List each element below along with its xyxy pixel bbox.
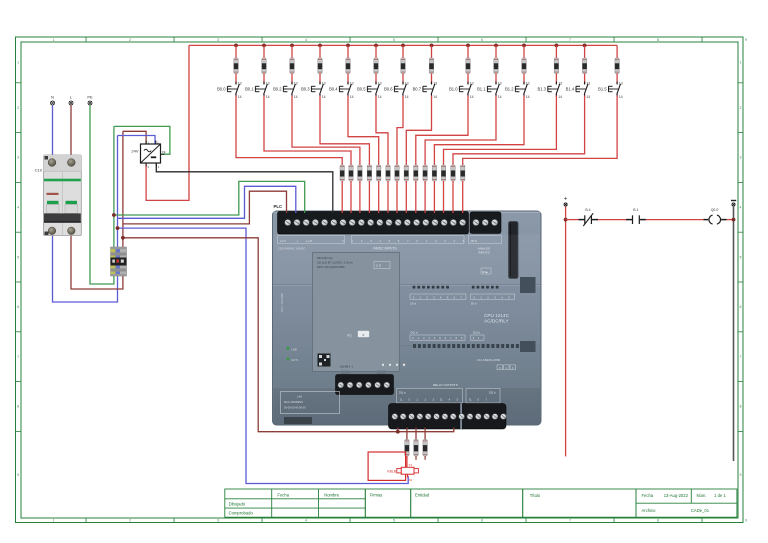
svg-text:KBLB: KBLB xyxy=(387,469,396,473)
NC contact B.4 xyxy=(579,208,599,226)
svg-text:1 de 1: 1 de 1 xyxy=(714,493,726,498)
svg-text:8: 8 xyxy=(657,38,659,42)
relay coil KBLB xyxy=(387,463,418,482)
svg-text:X: X xyxy=(499,366,501,370)
wire B1.5 to input xyxy=(463,96,617,166)
fuse above B0.3 xyxy=(318,58,322,74)
circuit breaker C10 xyxy=(35,155,82,236)
svg-text:PE: PE xyxy=(87,95,93,100)
junction xyxy=(121,236,125,240)
PLC name label xyxy=(274,204,283,209)
wire input to PLC B1.5 xyxy=(462,181,464,213)
svg-text:DI a: DI a xyxy=(411,302,417,306)
fuse output Q0 xyxy=(405,440,409,457)
fuse input B1.2 xyxy=(432,165,436,181)
fuse above B0.0 xyxy=(234,58,238,74)
svg-text:B0.3: B0.3 xyxy=(301,86,310,91)
svg-text:Fecha: Fecha xyxy=(642,493,654,498)
wire input to PLC B1.4 xyxy=(452,181,454,213)
wire fuse to contact B0.4 xyxy=(347,74,349,85)
wire B0.4 to input xyxy=(348,96,379,166)
wire B0.1 to input xyxy=(264,96,351,166)
fuse above B0.7 xyxy=(429,58,433,74)
svg-text:14: 14 xyxy=(378,95,382,99)
wire N riser xyxy=(117,136,119,248)
power supply 24V xyxy=(131,141,165,169)
svg-text:B1.5: B1.5 xyxy=(598,86,607,91)
wire bus drop B0.1 xyxy=(263,45,265,58)
svg-text:14: 14 xyxy=(238,95,242,99)
svg-text:B1.3: B1.3 xyxy=(537,86,546,91)
fuse output Q1 xyxy=(414,440,418,457)
junction xyxy=(732,218,736,222)
svg-text:13: 13 xyxy=(294,82,298,86)
svg-text:1: 1 xyxy=(17,61,19,65)
svg-text:Q0.0: Q0.0 xyxy=(711,208,719,212)
svg-text:3: 3 xyxy=(17,156,19,160)
junction xyxy=(401,44,405,48)
PROFINET LAN label xyxy=(281,392,340,425)
svg-text:14: 14 xyxy=(294,95,298,99)
pushbutton B0.6 xyxy=(384,82,409,99)
wire PE to supply xyxy=(114,126,170,154)
wire B0.7 to input xyxy=(406,96,431,166)
rung wire 2 xyxy=(598,219,626,221)
wire fuse to contact B1.5 xyxy=(616,74,618,85)
signal board SB 1232 AQ xyxy=(313,253,406,372)
svg-text:14: 14 xyxy=(586,95,590,99)
wire input to PLC B0.0 xyxy=(341,181,343,213)
ladder left rail xyxy=(565,207,567,457)
svg-text:2: 2 xyxy=(129,38,131,42)
svg-text:14: 14 xyxy=(498,95,502,99)
svg-text:2: 2 xyxy=(17,106,19,110)
wire bus drop B0.7 xyxy=(431,45,433,58)
wire N to PLC xyxy=(118,186,296,218)
svg-text:4: 4 xyxy=(305,519,307,523)
svg-text:Rx/Tx: Rx/Tx xyxy=(292,358,299,362)
svg-text:7: 7 xyxy=(569,38,571,42)
fuse above B1.3 xyxy=(554,58,558,74)
wire bus drop B0.4 xyxy=(347,45,349,58)
svg-text:13: 13 xyxy=(322,82,326,86)
pushbutton B1.1 xyxy=(477,82,502,99)
svg-text:CADe_01: CADe_01 xyxy=(691,508,710,513)
wire below fuse Q1 xyxy=(415,456,417,460)
wire B1.1 to input xyxy=(425,96,496,166)
terminal PE xyxy=(87,95,93,106)
svg-text:B1.0: B1.0 xyxy=(449,86,458,91)
wire 0V to PLC M xyxy=(156,163,332,214)
svg-text:AQ 1x12 BIT ±10VDC, 0-20mA: AQ 1x12 BIT ±10VDC, 0-20mA xyxy=(317,261,353,265)
fuse input B0.5 xyxy=(386,165,390,181)
svg-text:2: 2 xyxy=(740,106,742,110)
AQ terminal connector xyxy=(336,371,394,395)
junction xyxy=(430,44,434,48)
fuse input B0.3 xyxy=(367,165,371,181)
wire PE down xyxy=(90,105,114,284)
wire bus drop B0.2 xyxy=(291,45,293,58)
wire input to PLC B0.4 xyxy=(378,181,380,213)
wire bus drop B1.4 xyxy=(584,45,586,58)
svg-text:X1: X1 xyxy=(409,463,413,467)
pushbutton B1.4 xyxy=(566,82,591,99)
wire input to PLC B0.3 xyxy=(368,181,370,213)
svg-text:14: 14 xyxy=(558,95,562,99)
svg-text:Título: Título xyxy=(530,493,541,498)
svg-text:B0.2: B0.2 xyxy=(273,86,282,91)
wire input to PLC B1.0 xyxy=(415,181,417,213)
svg-text:14: 14 xyxy=(619,95,623,99)
svg-text:X2: X2 xyxy=(409,478,413,482)
fuse above B0.5 xyxy=(374,58,378,74)
svg-text:Dibujado: Dibujado xyxy=(229,501,246,506)
pushbutton B0.7 xyxy=(413,82,438,99)
svg-text:1: 1 xyxy=(740,61,742,65)
svg-text:9: 9 xyxy=(745,519,747,523)
fuse above B0.6 xyxy=(401,58,405,74)
svg-text:13: 13 xyxy=(238,82,242,86)
wire fuse to coil xyxy=(406,456,408,467)
fuse above B1.0 xyxy=(466,58,470,74)
terminal plus xyxy=(564,197,568,207)
svg-text:PLC: PLC xyxy=(274,204,283,209)
pushbutton B1.5 xyxy=(598,82,623,99)
svg-text:PLC- S7/1200: PLC- S7/1200 xyxy=(280,293,284,312)
svg-text:14: 14 xyxy=(526,95,530,99)
svg-text:B.4: B.4 xyxy=(585,208,590,212)
svg-text:8: 8 xyxy=(17,405,19,409)
svg-text:14: 14 xyxy=(266,95,270,99)
wire fuse to contact B1.4 xyxy=(584,74,586,85)
svg-text:9: 9 xyxy=(740,473,742,477)
svg-text:AC/DC/RLY: AC/DC/RLY xyxy=(484,319,510,324)
svg-text:3: 3 xyxy=(217,519,219,523)
wire breaker N out xyxy=(53,236,118,303)
svg-text:PE: PE xyxy=(162,150,166,154)
ladder right rail xyxy=(733,207,735,461)
wire breaker L out xyxy=(71,236,123,290)
svg-text:14: 14 xyxy=(322,95,326,99)
wire N to supply xyxy=(118,136,156,145)
wire fuse to contact B1.3 xyxy=(555,74,557,85)
svg-text:14: 14 xyxy=(470,95,474,99)
svg-text:5: 5 xyxy=(393,38,395,42)
wire B1.4 to input xyxy=(453,96,585,166)
wire B1.0 to input xyxy=(416,96,468,166)
wire fuse to contact B0.0 xyxy=(235,74,237,85)
wire input to PLC B0.1 xyxy=(350,181,352,213)
svg-text:13: 13 xyxy=(433,82,437,86)
junction xyxy=(346,44,350,48)
svg-text:13: 13 xyxy=(558,82,562,86)
junction xyxy=(374,44,378,48)
svg-text:24V: 24V xyxy=(131,149,138,154)
pushbutton B1.2 xyxy=(505,82,530,99)
svg-text:5: 5 xyxy=(740,255,742,259)
svg-text:14: 14 xyxy=(405,95,409,99)
svg-text:13: 13 xyxy=(619,82,623,86)
svg-text:9: 9 xyxy=(17,473,19,477)
svg-text:B0.4: B0.4 xyxy=(329,86,338,91)
svg-text:1: 1 xyxy=(53,38,55,42)
svg-text:LAN: LAN xyxy=(297,395,302,399)
wire bus drop B0.3 xyxy=(319,45,321,58)
pushbutton B0.3 xyxy=(301,82,326,99)
svg-text:DQ b: DQ b xyxy=(473,330,480,334)
wire input to PLC B0.5 xyxy=(387,181,389,213)
junction xyxy=(116,226,120,230)
svg-text:DI b: DI b xyxy=(471,302,477,306)
rung wire 1 xyxy=(566,219,579,221)
pushbutton B0.0 xyxy=(217,82,242,99)
svg-text:B0.7: B0.7 xyxy=(413,86,422,91)
wire fuse to contact B0.2 xyxy=(291,74,293,85)
svg-text:6ES7 232-4HA30-0XB0: 6ES7 232-4HA30-0XB0 xyxy=(317,265,345,269)
wire bus drop B0.5 xyxy=(375,45,377,58)
svg-text:7: 7 xyxy=(17,355,19,359)
fuse input B0.6 xyxy=(395,165,399,181)
title block xyxy=(225,489,737,517)
svg-text:5: 5 xyxy=(17,255,19,259)
junction xyxy=(522,44,526,48)
relay output terminal strip xyxy=(389,404,507,430)
svg-text:6: 6 xyxy=(17,305,19,309)
svg-text:B0.6: B0.6 xyxy=(384,86,393,91)
wire 24V+ to bus xyxy=(146,45,189,200)
svg-text:7: 7 xyxy=(740,355,742,359)
svg-text:14: 14 xyxy=(433,95,437,99)
svg-text:14: 14 xyxy=(350,95,354,99)
wire input to PLC B1.1 xyxy=(424,181,426,213)
wire L riser xyxy=(122,131,124,247)
wire B0.2 to input xyxy=(292,96,360,166)
svg-text:N: N xyxy=(51,95,54,100)
junction xyxy=(555,44,559,48)
wire PE riser xyxy=(113,126,115,247)
svg-text:13: 13 xyxy=(350,82,354,86)
wire Q1 output stub xyxy=(415,428,417,440)
svg-text:C E: C E xyxy=(376,264,381,268)
fuse input B0.7 xyxy=(404,165,408,181)
wire L1 to PLC xyxy=(123,191,287,224)
wire PE to PLC xyxy=(114,181,305,215)
svg-text:6: 6 xyxy=(740,305,742,309)
junction xyxy=(290,44,294,48)
fuse above B1.1 xyxy=(494,58,498,74)
wire fuse to contact B0.7 xyxy=(431,74,433,85)
junction xyxy=(234,44,238,48)
fuse above B1.4 xyxy=(582,58,586,74)
wire input to PLC B0.7 xyxy=(405,181,407,213)
wire fuse to contact B0.6 xyxy=(402,74,404,85)
svg-text:Núm.: Núm. xyxy=(697,493,707,498)
fuse input B1.1 xyxy=(423,165,427,181)
svg-text:+: + xyxy=(564,197,568,203)
relay output label area xyxy=(397,383,501,403)
svg-text:C10: C10 xyxy=(35,168,43,173)
svg-text:13: 13 xyxy=(405,82,409,86)
svg-text:B0.1: B0.1 xyxy=(245,86,254,91)
wire fuse to contact B1.2 xyxy=(523,74,525,85)
junction xyxy=(494,44,498,48)
svg-text:13: 13 xyxy=(526,82,530,86)
rung wire 3 xyxy=(646,219,704,221)
svg-text:B.1: B.1 xyxy=(633,208,638,212)
wire below fuse Q2 xyxy=(424,456,426,460)
svg-text:DQ a: DQ a xyxy=(411,330,418,334)
svg-text:13-Aug-2022: 13-Aug-2022 xyxy=(664,493,689,498)
wire bus drop B1.3 xyxy=(555,45,557,58)
svg-text:6: 6 xyxy=(481,38,483,42)
svg-text:8: 8 xyxy=(657,519,659,523)
svg-text:13: 13 xyxy=(266,82,270,86)
svg-text:13: 13 xyxy=(470,82,474,86)
wire fuse to contact B0.1 xyxy=(263,74,265,85)
distribution terminal block xyxy=(111,247,127,276)
svg-text:2: 2 xyxy=(129,519,131,523)
fuse input B1.3 xyxy=(441,165,445,181)
svg-text:3: 3 xyxy=(740,156,742,160)
wire bus drop B1.2 xyxy=(523,45,525,58)
junction xyxy=(583,44,587,48)
pushbutton B1.3 xyxy=(537,82,562,99)
wire Q2 output stub xyxy=(424,428,426,440)
pushbutton B1.0 xyxy=(449,82,474,99)
junction xyxy=(564,218,568,222)
fuse input B1.0 xyxy=(414,165,418,181)
junction xyxy=(262,44,266,48)
wire L branch to relay common xyxy=(123,238,454,432)
wire 24V bus xyxy=(189,44,617,46)
fuse input B0.0 xyxy=(340,165,344,181)
fuse input B0.4 xyxy=(377,165,381,181)
fuse output Q2 xyxy=(423,440,427,457)
wire B1.3 to input xyxy=(444,96,557,166)
svg-text:B1.4: B1.4 xyxy=(566,86,575,91)
svg-text:DQ a: DQ a xyxy=(399,391,406,395)
fuse input B1.4 xyxy=(451,165,455,181)
svg-text:214-1BE30-0XB0: 214-1BE30-0XB0 xyxy=(477,358,501,362)
wire loop xyxy=(368,452,406,480)
wire bus drop B1.5 xyxy=(616,45,618,58)
svg-text:5: 5 xyxy=(393,519,395,523)
wire fuse to contact B0.3 xyxy=(319,74,321,85)
wire fuse to contact B0.5 xyxy=(375,74,377,85)
svg-text:LINK: LINK xyxy=(292,347,298,351)
svg-text:8: 8 xyxy=(740,405,742,409)
terminal minus xyxy=(731,200,736,206)
junction xyxy=(466,44,470,48)
svg-text:DQ b: DQ b xyxy=(489,391,496,395)
terminal N xyxy=(51,95,55,106)
fuse input B0.2 xyxy=(358,165,362,181)
fuse above B1.2 xyxy=(522,58,526,74)
wire fuse to contact B1.1 xyxy=(495,74,497,85)
wire bus drop B1.0 xyxy=(467,45,469,58)
svg-text:3: 3 xyxy=(217,38,219,42)
fuse input B0.1 xyxy=(349,165,353,181)
wire L to breaker xyxy=(70,105,72,155)
fuse input B1.5 xyxy=(461,165,465,181)
terminal L xyxy=(69,95,73,106)
svg-text:RELAY OUTPUTS: RELAY OUTPUTS xyxy=(433,383,458,387)
svg-text:B0.5: B0.5 xyxy=(357,86,366,91)
svg-text:AQ 0M 0 ⏚: AQ 0M 0 ⏚ xyxy=(340,365,354,369)
wire input to PLC B1.2 xyxy=(433,181,435,213)
pushbutton B0.1 xyxy=(245,82,270,99)
wire N to breaker xyxy=(52,105,54,155)
svg-text:9: 9 xyxy=(745,38,747,42)
wire B0.3 to input xyxy=(320,96,369,166)
wire B0.5 to input xyxy=(376,96,388,166)
fuse above B1.5 xyxy=(615,58,619,74)
svg-text:4: 4 xyxy=(305,38,307,42)
svg-text:AQ: AQ xyxy=(347,334,352,338)
svg-text:00-00-00-00-00-00: 00-00-00-00-00-00 xyxy=(284,406,306,410)
fuse above B0.4 xyxy=(346,58,350,74)
wire bus drop B0.6 xyxy=(402,45,404,58)
svg-text:1: 1 xyxy=(53,519,55,523)
svg-text:13: 13 xyxy=(498,82,502,86)
wire B0.6 to input xyxy=(397,96,403,166)
pushbutton B0.4 xyxy=(329,82,354,99)
pushbutton B0.5 xyxy=(357,82,382,99)
svg-text:B1.2: B1.2 xyxy=(505,86,514,91)
svg-text:13: 13 xyxy=(378,82,382,86)
wire Q0 output stub xyxy=(406,428,408,440)
svg-text:7: 7 xyxy=(569,519,571,523)
pushbutton B0.2 xyxy=(273,82,298,99)
wire input to PLC B1.3 xyxy=(443,181,445,213)
junction xyxy=(396,430,400,434)
wire input to PLC B0.6 xyxy=(396,181,398,213)
svg-text:B1.1: B1.1 xyxy=(477,86,486,91)
svg-text:Archivo: Archivo xyxy=(642,508,657,513)
svg-text:SB 1232 AQ: SB 1232 AQ xyxy=(317,256,333,260)
wire N branch to coil return xyxy=(118,228,409,483)
wire relay common stub xyxy=(397,428,399,432)
svg-text:Fecha: Fecha xyxy=(277,493,289,498)
svg-text:Nombre: Nombre xyxy=(324,493,340,498)
wire input to PLC B0.2 xyxy=(359,181,361,213)
rung wire 4 xyxy=(727,219,734,221)
PLC CPU 1214C AC/DC/RLY body xyxy=(273,211,542,425)
PLC status LEDs xyxy=(287,347,299,362)
wire B0.0 to input xyxy=(236,96,342,166)
svg-text:Firmas: Firmas xyxy=(370,493,383,498)
svg-text:CPU 1214C: CPU 1214C xyxy=(484,313,510,318)
svg-text:13: 13 xyxy=(586,82,590,86)
svg-text:Entidad: Entidad xyxy=(415,493,430,498)
wire bus drop B0.0 xyxy=(235,45,237,58)
junction xyxy=(318,44,322,48)
svg-text:4: 4 xyxy=(17,206,19,210)
fuse above B0.2 xyxy=(290,58,294,74)
output coil Q0.0 xyxy=(704,208,727,224)
svg-text:Comprobado: Comprobado xyxy=(229,511,254,516)
wire bus drop B1.1 xyxy=(495,45,497,58)
svg-text:MAC ADDRESS: MAC ADDRESS xyxy=(284,400,303,404)
wire fuse to contact B1.0 xyxy=(467,74,469,85)
wire B1.2 to input xyxy=(434,96,524,166)
fuse above B0.1 xyxy=(262,58,266,74)
junction xyxy=(112,213,116,217)
svg-text:4: 4 xyxy=(740,206,742,210)
NO contact B.1 xyxy=(626,208,646,224)
svg-text:B0.0: B0.0 xyxy=(217,86,226,91)
wire L to supply xyxy=(123,131,146,144)
